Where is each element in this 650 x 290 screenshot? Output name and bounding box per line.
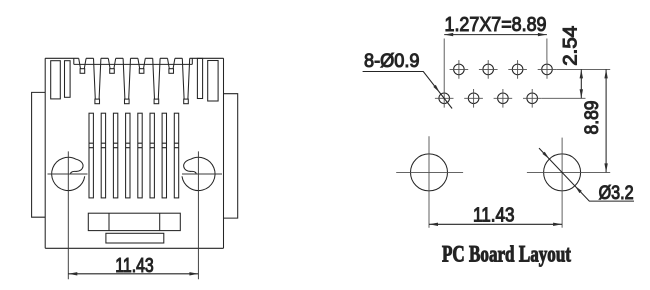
contact finger 4 [123,58,130,103]
connector body right edge [223,58,225,248]
right latch slot outer [208,61,218,102]
right post horizontal centerline [182,173,222,175]
hole top row 1 [450,60,469,79]
connector body top edge [45,57,223,59]
hole bottom row 2 [464,89,483,108]
extension line right (1.27X7) [546,39,548,61]
svg-text:PC Board Layout: PC Board Layout [442,242,571,267]
dimension line 8.89 [604,69,607,172]
hole bottom row 1 [435,89,454,108]
svg-text:11.43: 11.43 [473,205,515,227]
hole top row 2 [479,60,498,79]
contact finger 2 [94,58,101,103]
extension line bottom row right [542,97,586,99]
hole bottom row 3 [494,89,513,108]
contact channel slot 8 [174,113,178,198]
big hole left [396,136,463,228]
hole top row 4 [538,60,557,79]
dimension line 2.54 [580,69,583,98]
contact channel slot 2 [101,113,105,198]
right mounting post [182,157,215,190]
svg-text:Ø3.2: Ø3.2 [599,183,634,204]
left post horizontal centerline [48,173,88,175]
contact finger 3 [108,58,115,73]
hole top row 3 [508,60,527,79]
dimension line 1.27X7=8.89 [444,33,547,36]
connector body left edge [44,58,46,248]
right latch slot inner [197,58,202,98]
left latch slot inner [65,61,71,98]
contact channel slot 1 [89,113,93,198]
leader Ø3.2 [539,148,634,201]
left mounting post [52,157,85,190]
extension line left (1.27X7) [443,39,445,90]
svg-text:2.54: 2.54 [561,25,582,65]
svg-text:11.43: 11.43 [115,255,154,277]
comb shoulder line [74,58,193,64]
bottom tab [106,233,164,243]
svg-text:8-Ø0.9: 8-Ø0.9 [364,51,420,72]
right mounting flange [224,94,238,218]
left latch slot outer [51,61,61,99]
contact channel slot 7 [162,113,166,198]
left post centerline [67,151,69,279]
extension line top row right [556,68,610,70]
left mounting flange [32,92,46,217]
contact finger 8 [182,58,189,103]
right post centerline [197,151,199,279]
big hole right [527,138,610,228]
dimension line 11.43 (pcb) [429,223,562,226]
dimension line 11.43 (front view) [68,272,198,275]
contact channel slot 5 [138,113,142,198]
contact finger 1 [79,58,86,73]
contact channel slot 4 [126,113,130,198]
connector body bottom edge [45,247,223,249]
svg-text:8.89: 8.89 [582,101,603,135]
contact finger 6 [153,58,160,103]
svg-text:1.27X7=8.89: 1.27X7=8.89 [445,14,547,36]
contact finger 5 [138,58,145,73]
contact channel slot 6 [150,113,154,198]
contact channel slot 3 [113,113,117,198]
hole bottom row 4 [523,89,542,108]
leader 8-Ø0.9 [363,72,453,109]
bottom insert block [88,213,180,230]
contact finger 7 [168,58,175,73]
